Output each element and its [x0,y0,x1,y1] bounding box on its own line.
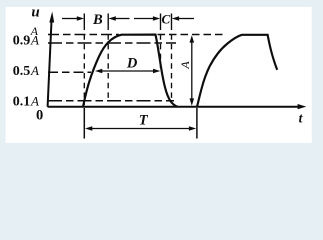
pulse 1 waveform [83,35,178,107]
dashed horizontal A level, right part [158,34,227,36]
svg-text:0.5A: 0.5A [13,63,39,79]
svg-text:A: A [178,61,192,70]
background frame [0,0,323,149]
y axis (u), slightly leaning like the scan [48,21,52,107]
dashed vertical at C right tick (x=171.5) [171,25,173,100]
dimension B left arrow [62,16,194,21]
dashed horizontal 0.1A level [48,100,174,102]
dashed vertical at C left tick (x=160.5) [160,25,162,69]
y axis arrowhead [49,12,54,23]
T extension line right [196,108,198,139]
svg-text:0.1A: 0.1A [13,93,39,109]
dimension C right arrow [178,18,194,20]
svg-text:C: C [161,12,170,27]
dimension C tick marks [160,14,162,25]
dashed horizontal 0.9A level [48,42,176,44]
dimension B tick marks [84,14,171,25]
x axis (t) [48,106,299,108]
svg-text:u: u [31,4,39,20]
pulse 2 waveform (cut off at right) [197,35,277,107]
dimension T double arrow [85,126,196,131]
svg-text:D: D [126,55,138,71]
amplitude A double arrow [190,35,195,105]
dashed vertical at B left tick (x=84.3) [84,25,171,106]
svg-text:0: 0 [36,107,43,123]
x axis arrowhead [298,104,307,109]
dimension D arrows [95,69,160,74]
dashed vertical at B right tick (x=108.2) [107,25,109,102]
T extension line left [84,108,197,139]
dimension C left arrow [134,18,154,20]
dimension B right arrow [115,18,130,20]
svg-text:0.9A: 0.9A [13,33,39,49]
dashed horizontal A level, left part [48,35,226,101]
dashed horizontal 0.5A level [48,71,91,73]
svg-text:T: T [139,113,149,129]
svg-text:B: B [92,12,103,28]
